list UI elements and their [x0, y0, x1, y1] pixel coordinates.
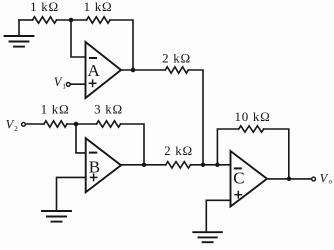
resistor R6 2 kOhm: [164, 143, 193, 168]
op-amp U1 A: [86, 42, 122, 98]
svg-text:B: B: [89, 158, 100, 177]
wire: [57, 19, 72, 21]
node C output junction: [287, 177, 292, 182]
terminal Vo: [312, 172, 333, 186]
svg-text:2 kΩ: 2 kΩ: [162, 51, 191, 66]
resistor R5 3 kOhm: [94, 102, 123, 128]
svg-text:2 kΩ: 2 kΩ: [164, 143, 193, 158]
wire: [121, 69, 165, 71]
wire: [67, 123, 97, 125]
resistor R3 2 kOhm: [162, 51, 191, 74]
wire: [57, 177, 86, 211]
node summing junction from R3: [201, 163, 206, 168]
op-amp U2 B: [86, 138, 121, 192]
svg-text:3 kΩ: 3 kΩ: [94, 102, 123, 117]
wire: [264, 129, 289, 179]
wire: [25, 123, 44, 125]
svg-text:o: o: [329, 177, 333, 185]
wire: [206, 200, 230, 232]
wire: [71, 20, 86, 57]
svg-text:C: C: [233, 169, 244, 188]
op-amp U3 C: [231, 151, 268, 207]
svg-text:1 kΩ: 1 kΩ: [30, 0, 59, 14]
svg-text:2: 2: [14, 125, 18, 133]
svg-text:1 kΩ: 1 kΩ: [84, 0, 113, 14]
wire: [19, 19, 33, 21]
resistor R2 1 kOhm: [84, 0, 113, 23]
node A output junction: [131, 68, 136, 73]
wire: [121, 124, 145, 165]
svg-text:1 kΩ: 1 kΩ: [41, 102, 70, 117]
wire: [267, 178, 312, 180]
node summing junction feedback: [215, 163, 220, 168]
wire: [70, 83, 85, 85]
node B output junction: [142, 163, 147, 168]
terminal V1: [54, 75, 70, 91]
node B-minus junction: [74, 122, 79, 127]
wire: [121, 164, 166, 166]
resistor R4 1 kOhm: [41, 102, 70, 128]
wire: [110, 20, 133, 70]
ground: [42, 211, 71, 222]
wire: [188, 70, 203, 165]
wire: [76, 124, 86, 153]
terminal V2: [6, 117, 26, 133]
ground: [5, 20, 34, 47]
wire: [71, 19, 87, 21]
resistor R7 10 kOhm: [235, 109, 271, 132]
resistor R1 1 kOhm: [30, 0, 59, 23]
svg-text:10 kΩ: 10 kΩ: [235, 109, 271, 124]
wire: [217, 129, 238, 165]
svg-text:A: A: [87, 61, 100, 80]
node A-minus junction: [69, 18, 74, 23]
wire: [191, 164, 231, 166]
ground: [193, 232, 222, 242]
